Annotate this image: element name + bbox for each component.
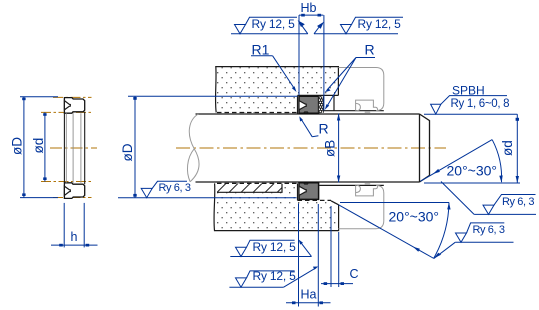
svg-text:Ry 12, 5: Ry 12, 5 [358,17,402,31]
centerline marks left view [41,97,97,197]
bottom seal lip notch [299,186,306,195]
svg-text:Ry 12, 5: Ry 12, 5 [253,269,297,283]
svg-text:øD: øD [120,143,135,161]
svg-text:SPBH: SPBH [452,83,485,97]
svg-text:Ry 6, 3: Ry 6, 3 [502,196,534,208]
svg-text:20°~30°: 20°~30° [447,162,498,178]
groove left wall top [297,95,299,114]
seal ring top lip notch [64,101,70,110]
dimension øB [338,114,340,183]
leader arrow to left groove wall ext [299,22,308,34]
svg-text:Ry 12, 5: Ry 12, 5 [252,17,296,31]
svg-text:R: R [365,42,375,58]
svg-text:R1: R1 [252,42,270,58]
dimension øD main view [118,96,298,198]
svg-text:20°~30°: 20°~30° [389,209,440,225]
bottom housing block (stippled) [214,183,339,230]
seal ring top cross-section [64,98,84,114]
SPBH + Ry 1,6~0,8 surface symbol [424,96,507,115]
svg-text:C: C [350,267,359,281]
dimension h (left view) [51,203,98,248]
top housing outline [216,67,339,113]
svg-text:Ha: Ha [301,288,317,302]
svg-text:øB: øB [323,140,338,157]
svg-text:Ry 1, 6~0, 8: Ry 1, 6~0, 8 [451,98,510,110]
svg-text:Ry 6, 3: Ry 6, 3 [473,224,505,236]
groove entry chamfer [331,201,339,205]
surface symbol Ry 6,3 right-upper [441,182,536,215]
bottom seal (installed) [299,183,319,200]
bottom seal lip step [303,183,308,184]
surface symbol Ry 12,5 bottom-upper [230,240,311,256]
bushing hatched band [217,183,282,192]
svg-text:Hb: Hb [301,1,317,15]
svg-text:ød: ød [31,138,46,154]
svg-text:Ry 6, 3: Ry 6, 3 [159,182,191,194]
housing bore dashed top [217,112,298,114]
retainer front face top [333,95,335,110]
phantom retainer bottom (gray) [338,184,383,229]
angle dim 20~30 lower right (groove chamfer) [339,203,449,259]
svg-text:Ry 12, 5: Ry 12, 5 [253,240,297,254]
surface symbol Ry 6,3 left [141,181,187,197]
bushing lower edge [217,184,282,193]
rod [196,114,430,182]
top housing block (stippled) [216,67,339,113]
step line bottom [319,184,384,186]
dimension Hb [299,15,324,110]
bottom housing outline [214,183,339,230]
groove seat top [298,94,339,96]
svg-text:h: h [71,230,78,244]
dimension C [321,206,353,287]
ring silhouette edges between sections [64,112,84,184]
top seal spring strip [319,96,323,113]
leader arrow to right groove wall ext [314,23,323,34]
svg-text:øD: øD [10,137,25,155]
step line top [323,110,384,112]
dimension od (left view) [44,112,46,181]
groove left wall bottom [297,183,299,200]
main centerline [176,147,446,149]
rod left break lines [187,114,199,182]
svg-text:R: R [319,121,329,137]
seal ring bottom cross-section [64,183,84,199]
top seal lip notch [299,101,306,110]
housing bore dashed bottom [217,182,297,184]
surface symbol Ry 6,3 right-lower [434,223,514,259]
angle dim 20~30 upper right (rod chamfer) [420,140,501,183]
dimension OD (left view) [20,97,58,198]
top seal lip step [303,112,308,113]
surface symbol Ry 12,5 top-right [314,17,403,34]
top seal (installed) [299,96,319,113]
dimension Ha [286,204,331,307]
surface symbol Ry 12,5 top-left [231,17,308,34]
seal ring bottom lip notch [64,186,70,195]
rod top extension + ød dimension [424,114,520,183]
surface symbol Ry 12,5 bottom-lower [229,268,316,287]
ring inner diameter lines (gray) [66,113,81,183]
phantom retainer top (gray) [338,68,383,113]
groove seat bottom dashed [298,199,332,201]
svg-text:ød: ød [500,140,515,156]
